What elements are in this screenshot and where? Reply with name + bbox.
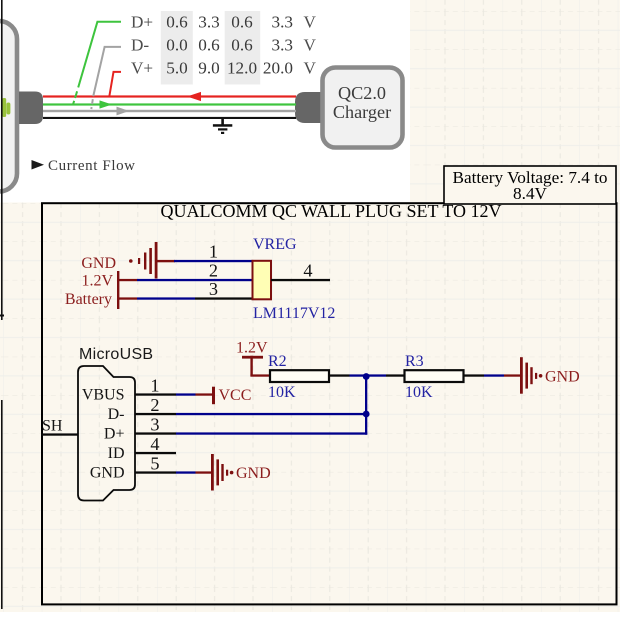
wire R2 to node xyxy=(350,374,368,376)
svg-text:12.0: 12.0 xyxy=(227,59,257,78)
leader line D- gray xyxy=(91,47,121,111)
VCC power port bar xyxy=(212,387,215,405)
svg-text:V+: V+ xyxy=(131,59,153,78)
svg-text:0.6: 0.6 xyxy=(231,13,253,32)
connector J1 body xyxy=(78,366,135,501)
leader line V+ red xyxy=(109,72,121,97)
cable wire V+ red xyxy=(43,92,296,101)
power ground symbol (vreg) xyxy=(129,242,175,279)
wire pin5 to GND blue xyxy=(176,471,196,473)
R3 right lead black xyxy=(463,374,484,376)
svg-text:2: 2 xyxy=(209,261,218,281)
right plug xyxy=(295,92,322,123)
sheet border xyxy=(42,203,617,604)
svg-text:VBUS: VBUS xyxy=(82,387,125,404)
svg-text:10K: 10K xyxy=(405,384,433,401)
svg-text:LM1117V12: LM1117V12 xyxy=(253,305,335,322)
pin 4 of VREG xyxy=(271,279,330,281)
SH wire xyxy=(41,433,78,435)
svg-text:VCC: VCC xyxy=(219,387,252,404)
wire stub Battery red xyxy=(117,297,137,299)
svg-text:0.6: 0.6 xyxy=(231,36,253,55)
svg-text:4: 4 xyxy=(150,434,159,454)
wire D+ to node xyxy=(176,432,367,434)
svg-text:5: 5 xyxy=(150,454,159,474)
svg-text:D-: D- xyxy=(131,36,149,55)
svg-text:GND: GND xyxy=(81,255,116,272)
svg-text:0.0: 0.0 xyxy=(166,36,187,55)
leader line D+ green xyxy=(73,22,121,105)
svg-text:1: 1 xyxy=(150,376,159,396)
table shade band 2 xyxy=(225,11,261,85)
svg-text:3.3: 3.3 xyxy=(272,13,293,32)
device (phone) xyxy=(0,21,17,192)
wire 1.2V to R2 xyxy=(250,374,270,376)
R3 left lead black xyxy=(386,374,405,376)
svg-text:3: 3 xyxy=(209,279,218,299)
svg-text:V: V xyxy=(304,36,317,55)
GND lead red (usb) xyxy=(196,471,213,473)
svg-text:VREG: VREG xyxy=(253,236,297,253)
svg-text:3.3: 3.3 xyxy=(198,13,219,32)
svg-text:QC2.0: QC2.0 xyxy=(338,83,386,103)
cable ground wire black xyxy=(43,117,296,119)
wire R3 to GND blue xyxy=(484,374,504,376)
table row D+ xyxy=(131,13,317,32)
wire node to R3 xyxy=(367,374,386,376)
regulator U1 body xyxy=(253,261,272,300)
pin 2 stub xyxy=(135,413,176,415)
resistor R3 body xyxy=(405,370,464,382)
svg-text:GND: GND xyxy=(90,465,125,482)
svg-text:Charger: Charger xyxy=(333,102,391,122)
svg-text:SH: SH xyxy=(42,418,63,435)
svg-text:9.0: 9.0 xyxy=(198,59,219,78)
svg-text:D-: D- xyxy=(108,406,125,423)
svg-text:3.3: 3.3 xyxy=(272,36,293,55)
battery voltage note box xyxy=(444,166,616,204)
svg-text:MicroUSB: MicroUSB xyxy=(79,346,153,363)
svg-text:5.0: 5.0 xyxy=(166,59,187,78)
battery icon on device xyxy=(2,98,10,117)
svg-text:Current Flow: Current Flow xyxy=(48,158,136,174)
table row D- xyxy=(131,36,317,55)
pin 3 of VREG black xyxy=(195,297,253,299)
pin 3 stub xyxy=(135,432,176,434)
power port 1.2V bar xyxy=(242,356,263,359)
svg-text:8.4V: 8.4V xyxy=(513,184,547,203)
wire vreg pin3 blue xyxy=(137,297,195,299)
svg-text:V: V xyxy=(304,13,317,32)
table row V+ xyxy=(131,59,317,78)
left edge border line lower xyxy=(1,400,3,609)
svg-text:10K: 10K xyxy=(268,384,296,401)
wire D- to node xyxy=(176,413,366,415)
svg-text:QUALCOMM QC WALL PLUG SET TO 1: QUALCOMM QC WALL PLUG SET TO 12V xyxy=(160,201,501,221)
svg-text:GND: GND xyxy=(236,465,271,482)
current flow legend xyxy=(32,158,136,174)
ground symbol (illustration) xyxy=(213,119,232,134)
table shade band 1 xyxy=(161,11,193,85)
svg-text:GND: GND xyxy=(545,368,580,385)
power ground symbol (usb pin5) xyxy=(211,454,233,491)
resistor R2 body xyxy=(270,370,329,382)
pin 1 stub xyxy=(135,393,176,395)
power port 1.2V stem xyxy=(250,356,252,376)
vertical wire node xyxy=(365,375,367,434)
svg-text:D+: D+ xyxy=(104,426,125,443)
svg-text:1: 1 xyxy=(209,242,218,262)
left edge border line upper xyxy=(1,0,3,320)
left edge tick xyxy=(0,315,4,317)
VCC power port lead xyxy=(196,393,213,395)
pin 5 stub xyxy=(135,471,176,473)
svg-text:0.6: 0.6 xyxy=(166,13,188,32)
R2 right lead black xyxy=(329,374,350,376)
wire vreg pin2 xyxy=(137,279,253,281)
svg-text:V: V xyxy=(304,59,317,78)
wire vreg pin1 xyxy=(174,260,253,262)
svg-text:ID: ID xyxy=(108,445,125,462)
svg-text:2: 2 xyxy=(150,395,159,415)
charger box U-QC xyxy=(323,68,403,148)
svg-text:20.0: 20.0 xyxy=(263,59,293,78)
cable wire D- gray xyxy=(43,107,296,116)
svg-text:1.2V: 1.2V xyxy=(236,340,268,357)
pin 4 stub (ID, unconnected) xyxy=(135,452,176,454)
wire stub 1.2V red xyxy=(117,279,137,281)
GND lead red (r3) xyxy=(504,374,521,376)
svg-text:R2: R2 xyxy=(268,353,287,370)
svg-text:R3: R3 xyxy=(405,353,424,370)
svg-text:1.2V: 1.2V xyxy=(81,273,113,290)
port bracket line xyxy=(117,271,119,309)
svg-text:D+: D+ xyxy=(131,13,153,32)
left plug xyxy=(19,92,43,125)
svg-text:Battery: Battery xyxy=(65,291,112,308)
wire pin1 to VCC blue xyxy=(176,393,196,395)
svg-text:0.6: 0.6 xyxy=(198,36,220,55)
svg-text:4: 4 xyxy=(303,261,312,281)
svg-text:3: 3 xyxy=(150,415,159,435)
cable wire D+ green xyxy=(43,100,296,108)
illustration white panel xyxy=(0,0,410,203)
power ground symbol (r3) xyxy=(520,357,542,394)
junction dot lower xyxy=(363,411,370,418)
junction dot upper xyxy=(363,373,370,380)
